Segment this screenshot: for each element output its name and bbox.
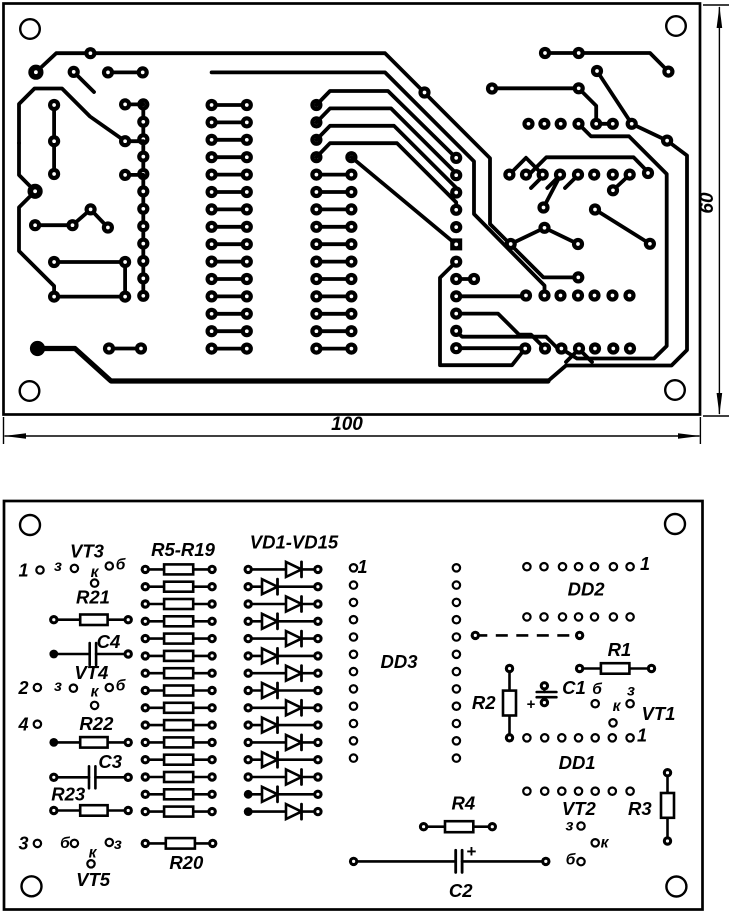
svg-text:VD1-VD15: VD1-VD15 xyxy=(250,532,339,553)
svg-text:1: 1 xyxy=(358,557,368,577)
svg-text:з: з xyxy=(54,558,62,575)
svg-text:+: + xyxy=(527,696,536,713)
svg-text:б: б xyxy=(116,678,126,695)
svg-text:C2: C2 xyxy=(449,880,473,901)
svg-text:б: б xyxy=(60,835,70,852)
svg-text:б: б xyxy=(116,557,126,574)
svg-text:1: 1 xyxy=(18,561,28,581)
svg-text:VT2: VT2 xyxy=(562,798,597,819)
svg-text:R22: R22 xyxy=(79,713,114,734)
svg-text:60: 60 xyxy=(697,192,718,214)
svg-text:+: + xyxy=(467,842,477,861)
svg-text:1: 1 xyxy=(637,726,647,746)
svg-text:VT5: VT5 xyxy=(76,869,111,890)
svg-text:к: к xyxy=(89,845,98,862)
svg-text:к: к xyxy=(613,698,622,715)
svg-text:4: 4 xyxy=(17,715,28,735)
svg-text:2: 2 xyxy=(17,678,28,698)
svg-text:R2: R2 xyxy=(472,692,496,713)
svg-text:R3: R3 xyxy=(628,798,652,819)
svg-text:R20: R20 xyxy=(169,852,204,873)
svg-text:DD1: DD1 xyxy=(559,752,596,773)
svg-text:R23: R23 xyxy=(51,784,86,805)
svg-text:C3: C3 xyxy=(98,751,122,772)
svg-text:DD3: DD3 xyxy=(380,651,418,672)
svg-text:R5-R19: R5-R19 xyxy=(151,539,215,560)
svg-text:3: 3 xyxy=(18,834,28,854)
svg-text:R1: R1 xyxy=(608,639,632,660)
svg-text:б: б xyxy=(566,852,576,869)
svg-text:R4: R4 xyxy=(451,793,475,814)
svg-text:R21: R21 xyxy=(76,587,110,608)
svg-text:з: з xyxy=(114,836,122,853)
svg-text:з: з xyxy=(566,818,574,835)
svg-text:з: з xyxy=(627,683,635,700)
svg-text:100: 100 xyxy=(331,414,363,435)
svg-text:VT1: VT1 xyxy=(642,703,676,724)
svg-text:к: к xyxy=(91,564,100,581)
svg-text:к: к xyxy=(601,835,610,852)
svg-text:C1: C1 xyxy=(562,677,586,698)
svg-text:DD2: DD2 xyxy=(568,579,606,600)
svg-text:1: 1 xyxy=(640,554,650,574)
svg-text:VT4: VT4 xyxy=(74,662,108,683)
svg-text:з: з xyxy=(54,678,62,695)
svg-text:VT3: VT3 xyxy=(70,541,105,562)
svg-text:б: б xyxy=(592,681,602,698)
svg-text:к: к xyxy=(91,684,100,701)
svg-text:C4: C4 xyxy=(97,631,121,652)
